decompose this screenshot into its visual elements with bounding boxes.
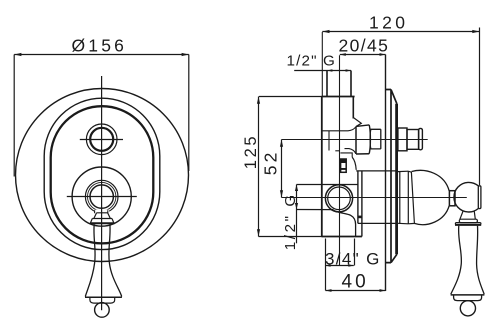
- svg-text:40: 40: [342, 271, 369, 292]
- svg-text:1/2" G: 1/2" G: [282, 192, 299, 250]
- svg-text:120: 120: [369, 12, 408, 32]
- svg-text:3/4" G: 3/4" G: [325, 249, 381, 268]
- svg-text:52: 52: [261, 149, 281, 175]
- svg-text:125: 125: [242, 134, 260, 169]
- svg-text:1/2" G: 1/2" G: [287, 52, 336, 69]
- svg-text:20/45: 20/45: [339, 35, 390, 55]
- svg-text:Ø156: Ø156: [72, 36, 128, 56]
